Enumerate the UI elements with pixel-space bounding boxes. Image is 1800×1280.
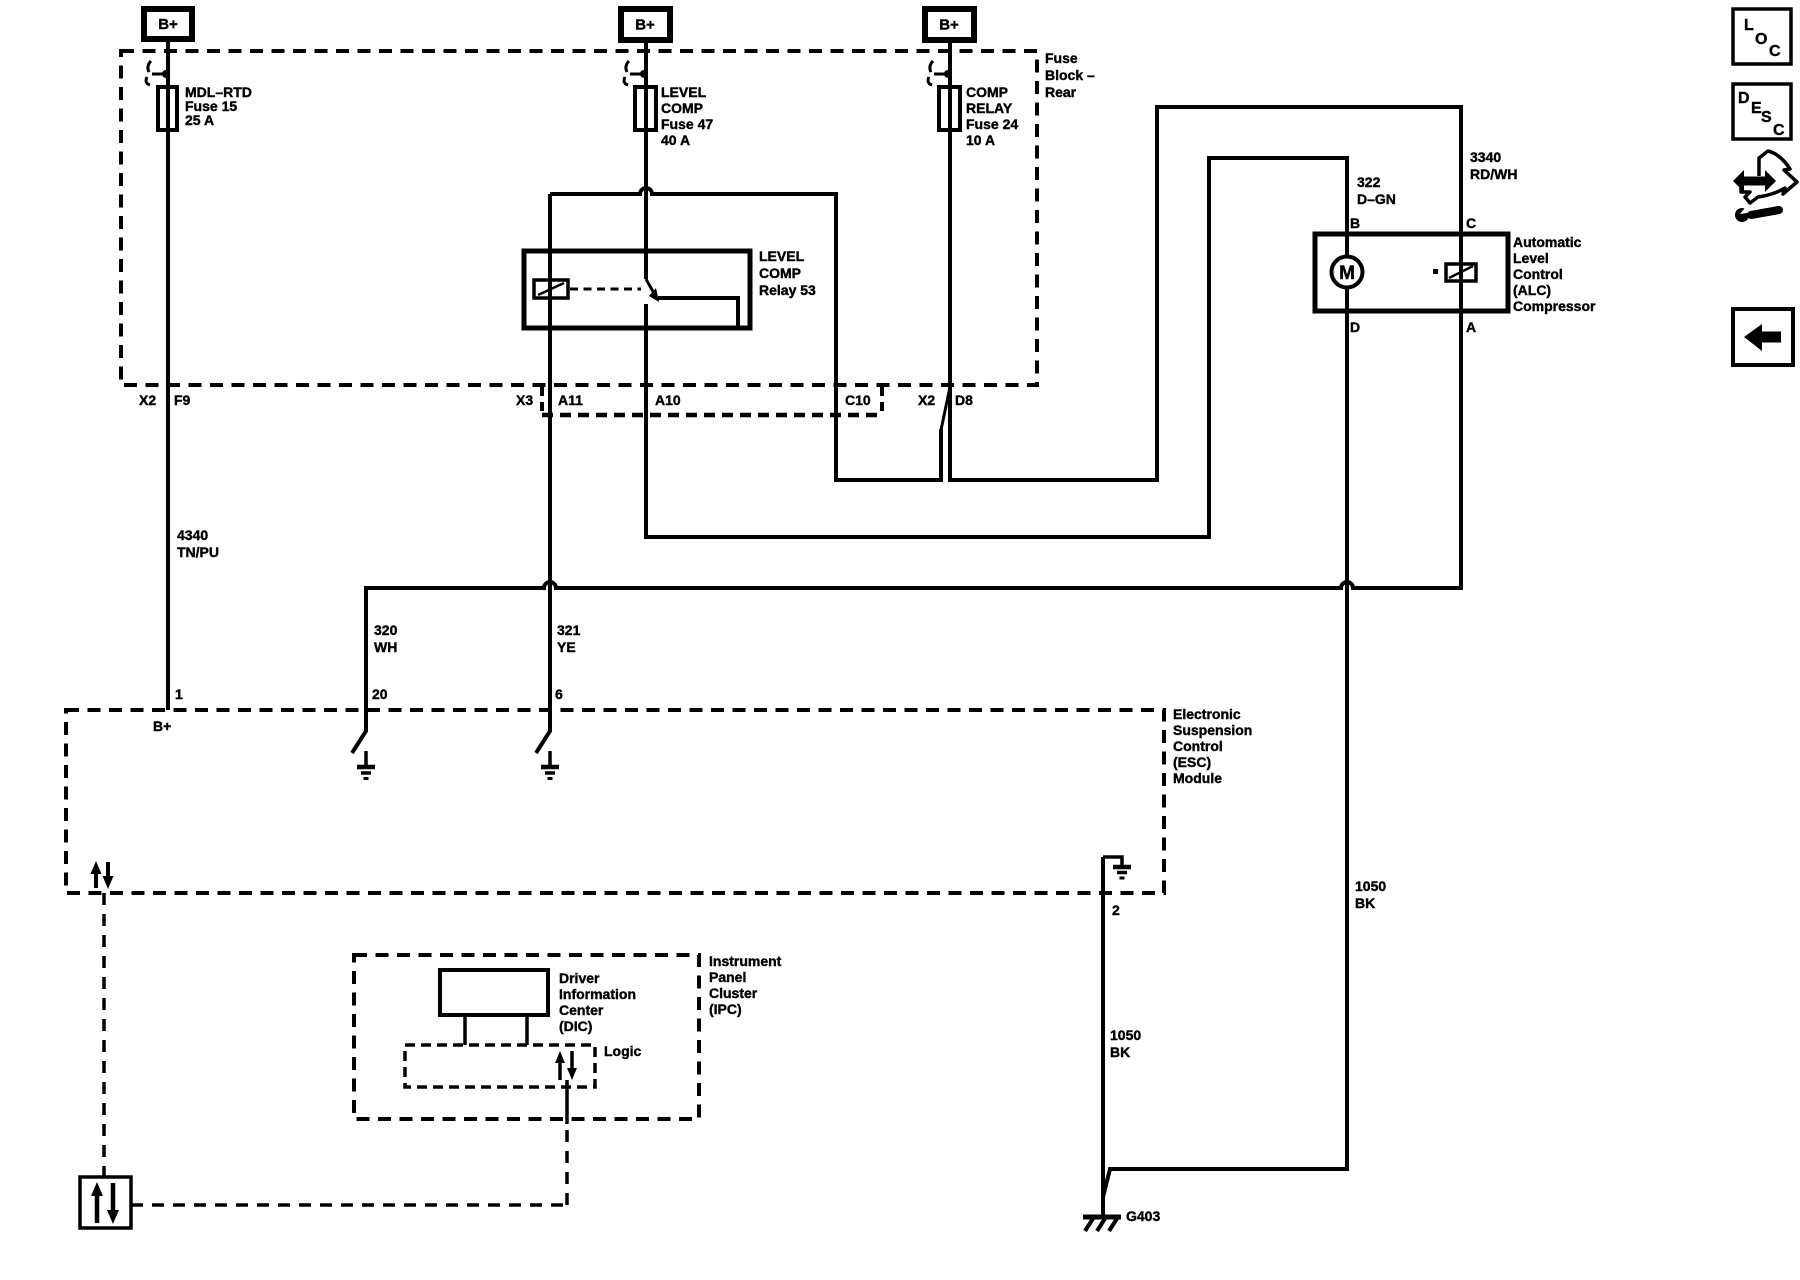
svg-text:Compressor: Compressor [1513, 298, 1596, 314]
svg-text:320: 320 [374, 622, 398, 638]
svg-text:Panel: Panel [709, 969, 746, 985]
svg-text:Control: Control [1173, 738, 1223, 754]
svg-text:(ESC): (ESC) [1173, 754, 1211, 770]
svg-text:Suspension: Suspension [1173, 722, 1252, 738]
svg-text:C10: C10 [845, 392, 871, 408]
svg-text:BK: BK [1355, 895, 1375, 911]
svg-text:Block –: Block – [1045, 67, 1095, 83]
svg-text:B+: B+ [939, 17, 959, 34]
svg-text:COMP: COMP [966, 84, 1008, 100]
svg-text:C: C [1769, 43, 1781, 60]
svg-text:LEVEL: LEVEL [661, 84, 707, 100]
svg-text:1: 1 [175, 686, 183, 702]
svg-text:Fuse 47: Fuse 47 [661, 116, 713, 132]
svg-text:10 A: 10 A [966, 132, 995, 148]
svg-text:Control: Control [1513, 266, 1563, 282]
svg-text:COMP: COMP [759, 265, 801, 281]
svg-text:F9: F9 [174, 392, 191, 408]
svg-text:B+: B+ [158, 16, 178, 33]
svg-text:Rear: Rear [1045, 84, 1077, 100]
svg-text:Information: Information [559, 986, 636, 1002]
svg-text:X2: X2 [139, 392, 156, 408]
svg-text:LEVEL: LEVEL [759, 248, 805, 264]
svg-text:A10: A10 [655, 392, 681, 408]
svg-text:Logic: Logic [604, 1043, 642, 1059]
svg-text:A: A [1466, 319, 1476, 335]
svg-text:322: 322 [1357, 174, 1381, 190]
svg-text:Fuse: Fuse [1045, 50, 1078, 66]
svg-text:Driver: Driver [559, 970, 600, 986]
svg-text:1050: 1050 [1355, 878, 1386, 894]
svg-text:(IPC): (IPC) [709, 1001, 742, 1017]
svg-text:25 A: 25 A [185, 112, 214, 128]
svg-text:321: 321 [557, 622, 581, 638]
svg-text:Relay 53: Relay 53 [759, 282, 816, 298]
svg-text:D8: D8 [955, 392, 973, 408]
svg-text:Fuse 24: Fuse 24 [966, 116, 1018, 132]
svg-text:WH: WH [374, 639, 397, 655]
svg-text:(ALC): (ALC) [1513, 282, 1551, 298]
svg-text:BK: BK [1110, 1044, 1130, 1060]
svg-text:X2: X2 [918, 392, 935, 408]
svg-text:C: C [1466, 215, 1476, 231]
svg-text:1050: 1050 [1110, 1027, 1141, 1043]
svg-text:S: S [1761, 109, 1772, 126]
svg-text:RELAY: RELAY [966, 100, 1013, 116]
svg-text:3340: 3340 [1470, 149, 1501, 165]
svg-text:20: 20 [372, 686, 388, 702]
svg-text:O: O [1755, 31, 1767, 48]
svg-text:Cluster: Cluster [709, 985, 758, 1001]
svg-text:D: D [1350, 319, 1360, 335]
svg-text:Center: Center [559, 1002, 604, 1018]
svg-text:D–GN: D–GN [1357, 191, 1396, 207]
svg-text:G403: G403 [1126, 1208, 1160, 1224]
svg-text:B+: B+ [635, 17, 655, 34]
svg-text:COMP: COMP [661, 100, 703, 116]
svg-text:40 A: 40 A [661, 132, 690, 148]
svg-text:4340: 4340 [177, 527, 208, 543]
svg-text:D: D [1738, 90, 1750, 107]
svg-text:6: 6 [555, 686, 563, 702]
svg-text:2: 2 [1112, 902, 1120, 918]
svg-text:Instrument: Instrument [709, 953, 782, 969]
svg-text:Automatic: Automatic [1513, 234, 1582, 250]
svg-text:B+: B+ [153, 718, 171, 734]
svg-text:A11: A11 [558, 392, 583, 408]
svg-text:YE: YE [557, 639, 576, 655]
svg-text:X3: X3 [516, 392, 533, 408]
svg-text:M: M [1339, 263, 1355, 284]
svg-text:RD/WH: RD/WH [1470, 166, 1517, 182]
svg-text:(DIC): (DIC) [559, 1018, 592, 1034]
svg-text:Level: Level [1513, 250, 1549, 266]
svg-text:Module: Module [1173, 770, 1222, 786]
svg-text:C: C [1773, 122, 1785, 139]
svg-text:TN/PU: TN/PU [177, 544, 219, 560]
svg-text:Electronic: Electronic [1173, 706, 1241, 722]
svg-text:B: B [1350, 215, 1360, 231]
svg-text:L: L [1744, 17, 1754, 34]
